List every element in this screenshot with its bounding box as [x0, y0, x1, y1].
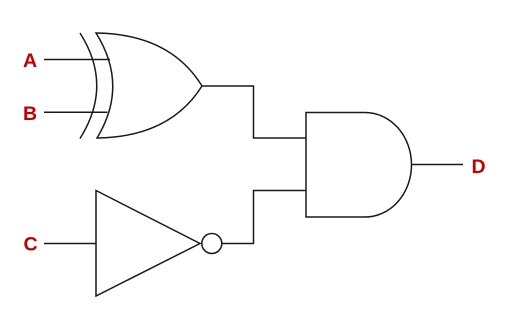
xor-gate input side arc: [80, 33, 97, 139]
svg-text:C: C: [23, 234, 37, 256]
svg-text:D: D: [471, 156, 485, 178]
xor-gate body: [96, 33, 202, 138]
and-gate body: [306, 113, 412, 218]
wire not output to and-gate lower input: [222, 191, 306, 244]
svg-text:A: A: [23, 50, 37, 72]
not-gate bubble: [202, 234, 222, 254]
wire input C: [44, 243, 96, 245]
svg-text:B: B: [23, 103, 37, 125]
wire xor output to and-gate upper input: [202, 86, 306, 138]
not-gate (inverter) triangle: [96, 191, 200, 297]
wire input A: [44, 59, 110, 61]
wire output D: [412, 164, 464, 166]
wire input B: [44, 111, 108, 113]
